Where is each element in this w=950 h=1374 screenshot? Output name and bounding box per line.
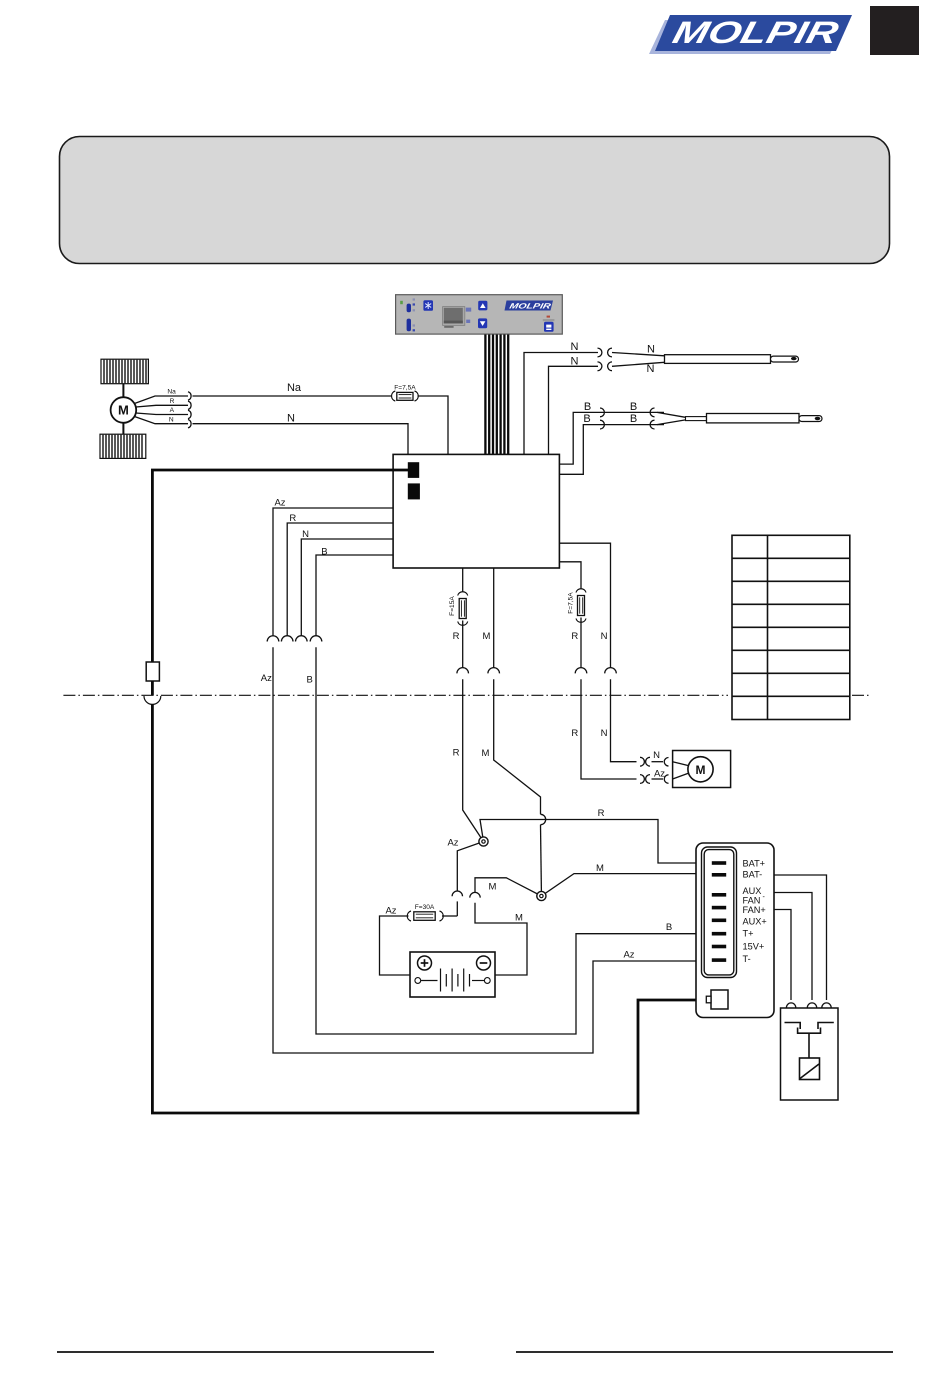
- ribbon cable: [485, 335, 508, 455]
- svg-text:M: M: [482, 748, 490, 759]
- connector B: [310, 636, 322, 642]
- svg-text:N: N: [571, 355, 579, 367]
- battery GB: [410, 952, 495, 997]
- svg-text:M: M: [118, 403, 129, 418]
- svg-text:R: R: [598, 808, 605, 819]
- wire N: [193, 424, 409, 455]
- fan motor M1: [111, 397, 137, 423]
- MOLPIR logo shadow: [649, 20, 847, 54]
- wire N sensor1 riser: [524, 353, 598, 455]
- svg-text:Az: Az: [261, 673, 272, 684]
- battery cells: [415, 969, 490, 992]
- battery plus terminal: [418, 956, 432, 970]
- connector B2a: [600, 420, 604, 429]
- panel red led: [547, 316, 550, 318]
- wire R switch output to BAT+: [480, 820, 713, 864]
- connector R: [457, 668, 469, 674]
- black square: [870, 6, 919, 55]
- motor lead A: [136, 413, 188, 415]
- wire B to T+: [316, 647, 713, 1034]
- MOLPIR logo: [655, 15, 852, 51]
- terminal labels: [743, 859, 767, 964]
- connector R: [281, 636, 293, 642]
- terminal block outer: [696, 843, 774, 1018]
- svg-text:AUX+: AUX+: [743, 916, 767, 926]
- connector N1: [598, 348, 602, 357]
- wire M to battery minus: [475, 903, 527, 975]
- svg-text:FAN: FAN: [743, 896, 761, 906]
- svg-text:B: B: [583, 413, 590, 425]
- svg-text:R: R: [571, 631, 578, 642]
- connector Az pair: [640, 775, 644, 784]
- snowflake button: [423, 300, 433, 311]
- svg-text:N: N: [601, 631, 608, 642]
- svg-text:N: N: [653, 750, 660, 761]
- connector R: [188, 401, 191, 409]
- svg-text:N: N: [302, 529, 309, 540]
- heater element top: [101, 359, 148, 384]
- wire M switch 2 blade: [475, 878, 541, 896]
- svg-text:R: R: [453, 631, 460, 642]
- aux motor leads: [673, 762, 689, 766]
- temperature probe 2 body: [707, 414, 800, 423]
- svg-text:B: B: [584, 401, 591, 413]
- connector N2: [598, 362, 602, 371]
- svg-text:R: R: [170, 398, 175, 405]
- connector B1a: [600, 408, 604, 417]
- connector N: [188, 420, 191, 428]
- wire hop over R: [541, 814, 546, 824]
- terminal bars: [712, 861, 726, 962]
- svg-text:R: R: [453, 747, 460, 758]
- wire Az to fuse F=30A: [456, 901, 458, 916]
- wire B sensor2: [559, 425, 664, 475]
- aux motor box: [673, 751, 731, 788]
- fuse F=7,5A right: [576, 589, 586, 623]
- temperature probe 2 neck: [686, 417, 707, 421]
- motor lead N: [135, 417, 189, 424]
- wire Az into motor: [652, 778, 664, 780]
- wire B sensor1: [559, 412, 664, 464]
- svg-text:MOLPIR: MOLPIR: [669, 15, 842, 49]
- relay coil: [800, 1058, 820, 1080]
- wire Na: [193, 395, 393, 397]
- block connector square: [711, 990, 728, 1009]
- wire N from unit: [301, 539, 393, 636]
- bulkhead grommet: [144, 696, 161, 704]
- svg-text:N: N: [601, 728, 608, 739]
- connector N: [296, 636, 308, 642]
- svg-text:B: B: [630, 413, 637, 425]
- wire Az to aux motor: [581, 679, 637, 779]
- wire N sensor2 riser: [549, 366, 599, 454]
- svg-text:Na: Na: [287, 382, 302, 394]
- terminal block inner frame: [702, 847, 737, 978]
- fan motor M1 shaft top: [122, 384, 124, 398]
- svg-text:B: B: [630, 401, 637, 413]
- panel mini MOLPIR logo: [505, 301, 554, 311]
- connector Az: [267, 636, 279, 642]
- temperature probe 1 body: [665, 355, 771, 364]
- svg-text:M: M: [489, 881, 497, 892]
- svg-text:Az: Az: [623, 949, 634, 960]
- temperature probe 2 tip: [799, 416, 822, 422]
- unit connector square 1: [408, 462, 419, 478]
- svg-text:F=30A: F=30A: [415, 904, 435, 911]
- connector B1b: [650, 408, 654, 417]
- connector M: [488, 668, 500, 674]
- svg-text:N: N: [287, 413, 295, 425]
- relay contacts: [785, 1023, 834, 1059]
- svg-text:R: R: [289, 513, 296, 524]
- connector R right: [575, 668, 587, 674]
- panel power button: [544, 322, 554, 332]
- svg-text:Az: Az: [274, 497, 285, 508]
- aux motor M2: [688, 757, 713, 782]
- wire R via fuse F=15A: [462, 568, 464, 592]
- wire N into motor: [652, 761, 664, 763]
- wire R below fuse: [462, 621, 464, 668]
- probe 2 leads: [657, 412, 686, 417]
- control panel: [396, 295, 563, 334]
- switch pivot 1: [479, 837, 488, 846]
- supply wire to bulkhead: [151, 681, 154, 696]
- svg-text:B: B: [666, 922, 672, 933]
- wire Az from unit: [273, 508, 393, 636]
- motor lead Na: [135, 396, 189, 404]
- svg-text:FAN+: FAN+: [743, 905, 766, 915]
- wire M switch 2 to BAT-: [541, 874, 713, 896]
- wire Az to T-: [273, 647, 713, 1053]
- svg-text:M: M: [696, 763, 706, 777]
- connector Na: [188, 392, 191, 400]
- inline component on supply wire: [146, 662, 159, 681]
- wire R from unit: [287, 523, 393, 636]
- LCD side marks: [466, 308, 471, 312]
- svg-text:Az: Az: [447, 838, 458, 849]
- wire R via fuse F=7,5A right: [559, 562, 581, 589]
- svg-text:T+: T+: [743, 929, 754, 939]
- svg-text:R: R: [571, 728, 578, 739]
- svg-text:M: M: [596, 863, 604, 874]
- svg-text:N: N: [647, 363, 655, 375]
- main supply wire bottom loop: [152, 705, 706, 1114]
- probe 1 leads: [612, 353, 665, 356]
- wire R to switch: [463, 679, 484, 841]
- svg-text:15V+: 15V+: [743, 942, 765, 952]
- wire FAN+ to relay: [774, 910, 791, 1001]
- panel small label: [543, 319, 555, 321]
- svg-text:Az: Az: [654, 769, 665, 780]
- main supply wire top: [152, 470, 409, 662]
- svg-text:BAT-: BAT-: [743, 870, 763, 880]
- control unit box: [393, 454, 559, 568]
- svg-text:M: M: [515, 913, 523, 924]
- note box: [60, 137, 890, 264]
- fan motor M1 shaft bottom: [122, 423, 124, 435]
- svg-text:N: N: [647, 343, 655, 355]
- terminal table: [732, 535, 850, 719]
- connector B2b: [650, 420, 654, 429]
- connector N: [605, 668, 617, 674]
- wire Na to unit: [418, 396, 449, 454]
- svg-text:Az: Az: [385, 905, 396, 916]
- heater element bottom: [100, 434, 146, 458]
- fuse F=7,5A (Na line): [392, 391, 419, 401]
- wire AUX to relay: [774, 893, 812, 1001]
- footer line right: [516, 1351, 893, 1353]
- svg-text:F=7,5A: F=7,5A: [394, 385, 416, 392]
- connector Az battery: [452, 891, 462, 896]
- down button: [478, 318, 487, 328]
- wire Az switch blade: [457, 842, 483, 891]
- motor lead R: [136, 405, 188, 407]
- panel thermometer icon 2: [407, 319, 411, 332]
- unit connector square 2: [408, 483, 420, 499]
- wire B from unit: [316, 555, 393, 636]
- panel thermometer icon 1: [407, 304, 411, 313]
- svg-text:A: A: [170, 407, 175, 414]
- wire M hop to switch 2: [540, 825, 543, 892]
- svg-text:M: M: [482, 631, 490, 642]
- wire M from unit: [493, 568, 495, 668]
- relay terminal arcs: [786, 1003, 795, 1008]
- wire M to switch 2: [494, 679, 541, 814]
- fuse F=15A: [458, 592, 468, 626]
- LCD display: [443, 307, 465, 326]
- svg-text:B: B: [321, 547, 327, 558]
- switch pivot 2: [537, 891, 546, 900]
- wire N right from unit: [559, 543, 610, 667]
- relay box: [781, 1008, 839, 1100]
- svg-text:T-: T-: [743, 954, 751, 964]
- svg-text:N: N: [169, 416, 174, 423]
- svg-text:F=15A: F=15A: [449, 596, 456, 616]
- svg-text:Na: Na: [167, 389, 176, 396]
- svg-text:N: N: [571, 341, 579, 353]
- connector M battery: [470, 892, 480, 897]
- fuse F=30A: [407, 911, 457, 921]
- battery minus terminal: [477, 956, 491, 970]
- bulkhead line: [63, 694, 871, 696]
- svg-text:B: B: [307, 674, 313, 685]
- wire BAT- to relay: [774, 875, 827, 1000]
- up button: [478, 301, 487, 311]
- wire Az to battery plus: [380, 916, 411, 975]
- svg-text:BAT+: BAT+: [743, 859, 766, 869]
- svg-text:MOLPIR: MOLPIR: [509, 302, 553, 311]
- connector A: [188, 410, 191, 418]
- connector N pair: [640, 757, 644, 766]
- wire R below fuse right: [580, 618, 582, 668]
- svg-text:F=7,5A: F=7,5A: [568, 592, 575, 614]
- footer line left: [57, 1351, 434, 1353]
- wire N to aux motor: [611, 679, 637, 762]
- temperature probe 1 tip: [771, 356, 799, 362]
